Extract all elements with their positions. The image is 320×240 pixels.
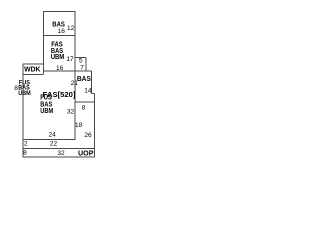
svg-text:8: 8 — [82, 105, 86, 112]
svg-text:UBM: UBM — [40, 106, 53, 115]
wire divider under BAS right — [75, 101, 95, 103]
wire WDK box top — [23, 63, 44, 65]
wire left edge of main boxes — [43, 11, 45, 75]
wire 5-7 column top — [75, 56, 86, 58]
svg-text:BAS: BAS — [77, 74, 91, 83]
svg-text:UBM: UBM — [51, 52, 65, 61]
svg-text:22: 22 — [50, 141, 58, 148]
svg-text:5: 5 — [79, 57, 83, 64]
svg-text:24: 24 — [48, 132, 56, 139]
wire step vertical right of BAS — [90, 71, 92, 94]
svg-text:WDK: WDK — [24, 65, 41, 74]
wire top edge of BAS box — [43, 11, 75, 13]
svg-text:14: 14 — [84, 88, 92, 95]
svg-text:7: 7 — [80, 64, 84, 71]
svg-text:12: 12 — [67, 25, 75, 32]
wire step jog — [91, 93, 94, 95]
svg-text:32: 32 — [67, 108, 75, 115]
svg-text:UOP: UOP — [78, 148, 94, 157]
wire bottom of FAS box — [43, 70, 91, 72]
svg-text:26: 26 — [84, 132, 92, 139]
wire line above UOP strip — [23, 147, 95, 149]
svg-text:17: 17 — [66, 56, 74, 63]
svg-text:16: 16 — [56, 65, 64, 72]
wire main right vertical — [74, 11, 76, 140]
svg-text:8: 8 — [14, 85, 18, 92]
wire WDK box bottom — [23, 74, 44, 76]
svg-text:8: 8 — [23, 150, 27, 157]
wire line above 2-22 row — [23, 139, 75, 141]
wire outer right vertical — [93, 94, 95, 157]
svg-text:UBM: UBM — [18, 90, 31, 97]
svg-text:32: 32 — [57, 150, 65, 157]
wire left vertical — [22, 64, 24, 157]
svg-text:21: 21 — [71, 80, 79, 87]
wire 5-7 column right — [85, 57, 87, 71]
svg-text:16: 16 — [58, 28, 66, 35]
svg-text:2: 2 — [24, 141, 28, 148]
svg-text:18: 18 — [75, 122, 83, 129]
wire bottom edge — [23, 156, 95, 158]
wire divider between BAS and FAS boxes — [43, 35, 75, 37]
